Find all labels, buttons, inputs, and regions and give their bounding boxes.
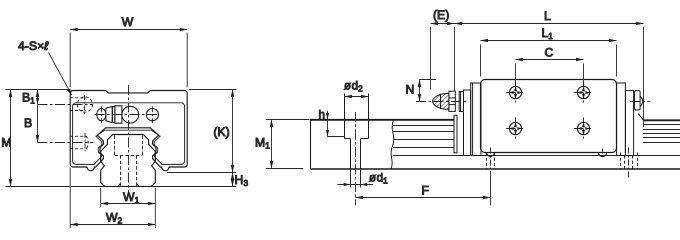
svg-text:ød2: ød2 xyxy=(344,80,363,94)
mounting hole centerlines xyxy=(506,82,593,140)
left nipple hex xyxy=(449,91,455,111)
left face hole circle with cross xyxy=(97,109,106,121)
vertical centerline (front) xyxy=(128,85,130,193)
svg-text:h: h xyxy=(319,109,325,122)
dimension W2 xyxy=(70,168,155,229)
dimension (E) and L extension lines xyxy=(431,27,644,127)
svg-text:B1: B1 xyxy=(22,90,35,105)
lower-left side grease hole (dashed) xyxy=(70,136,88,149)
upper hole centerline xyxy=(38,104,94,106)
dimension B1 / B shared line xyxy=(37,90,39,143)
rail lower groove line full width xyxy=(393,155,680,157)
svg-text:H3: H3 xyxy=(235,173,249,188)
dimension L line xyxy=(455,23,644,25)
hole centerline (left detail) xyxy=(355,112,357,206)
rail cross-section profile xyxy=(101,135,156,187)
left nipple washers xyxy=(459,92,463,112)
right end seal plates xyxy=(617,83,634,156)
dimension N xyxy=(420,80,437,102)
dimension F xyxy=(356,171,491,206)
through hole section walls (left detail) xyxy=(351,139,361,188)
mounting hole arrow symbol 2 xyxy=(577,86,590,99)
bottom extension / rail bottom line xyxy=(6,186,237,188)
rail bolt hole hidden lines (front) xyxy=(118,156,138,187)
rail bottom edge xyxy=(311,168,680,170)
mounting hole arrow symbol 1 xyxy=(509,86,522,99)
dimension L1 xyxy=(481,41,617,77)
svg-text:ød1: ød1 xyxy=(369,172,388,186)
svg-text:L1: L1 xyxy=(542,26,554,41)
horizontal centerline through nipple (front) xyxy=(95,114,160,116)
svg-text:(E): (E) xyxy=(433,8,449,22)
left nipple dome (hatched) xyxy=(432,93,449,109)
block outer outline with top recess and bottom channel xyxy=(70,91,187,171)
svg-text:M1: M1 xyxy=(255,135,270,150)
svg-text:(K): (K) xyxy=(213,125,229,139)
nipple centerline (left) xyxy=(416,101,467,103)
mounting hole arrow symbol 4 xyxy=(577,122,590,135)
grease nipple body (front) xyxy=(106,106,122,123)
dimension h xyxy=(328,111,346,137)
right face hole circle with cross xyxy=(146,109,158,121)
rail groove lines left of block xyxy=(393,126,454,148)
dimension od1 xyxy=(338,169,374,187)
end seal inner outline xyxy=(73,103,185,165)
svg-text:C: C xyxy=(545,46,554,60)
dimension (K) xyxy=(167,90,236,173)
nipple centerline (right) xyxy=(630,101,650,103)
rail bolt counterbore hidden lines (front) xyxy=(115,136,143,156)
rail bolt hole B (dashed) xyxy=(621,153,638,170)
rail top edge (hidden behind block in the middle) xyxy=(311,119,455,121)
break line xyxy=(391,120,394,169)
block body (side) xyxy=(481,80,617,153)
rail bolt hole A (dashed, under block) xyxy=(487,153,495,170)
rail left end face xyxy=(310,119,312,169)
dimension M1 xyxy=(266,120,310,169)
dimension W xyxy=(70,30,187,88)
upper hole vertical center tick xyxy=(84,95,86,114)
counterbore section walls (left detail) xyxy=(345,94,369,139)
mounting hole symbols on block (4x) xyxy=(509,86,589,134)
dimension (E) line xyxy=(431,23,455,25)
dimension W1 xyxy=(101,188,156,228)
grease nipple head circle (front) xyxy=(122,106,139,123)
svg-text:W2: W2 xyxy=(106,211,123,226)
dimension C xyxy=(516,60,584,86)
svg-text:F: F xyxy=(422,184,429,198)
rail groove lines right of block xyxy=(643,125,680,143)
small relief mark on rail xyxy=(598,153,606,157)
B1 arrow at hole1 centerline xyxy=(36,98,39,105)
svg-text:M: M xyxy=(1,136,11,150)
svg-text:4-S×ℓ: 4-S×ℓ xyxy=(18,39,49,53)
left end seal plates xyxy=(464,83,482,156)
lower hole centerline xyxy=(38,142,94,144)
svg-text:N: N xyxy=(406,83,415,97)
svg-text:W1: W1 xyxy=(123,190,140,205)
dimension od2 xyxy=(345,96,369,98)
right nipple boss xyxy=(635,91,644,120)
lower hole vertical center tick xyxy=(84,133,86,152)
upper-left side tapped hole (dashed) xyxy=(70,97,93,112)
rail clamp piece in front of nipple xyxy=(454,115,457,153)
dimension H3 xyxy=(232,173,234,187)
svg-text:B: B xyxy=(24,116,32,130)
svg-text:L: L xyxy=(544,9,551,23)
svg-text:W: W xyxy=(122,15,134,29)
dimension M xyxy=(10,90,12,187)
top extension line (left) xyxy=(6,89,70,91)
mounting hole arrow symbol 3 xyxy=(509,122,522,135)
